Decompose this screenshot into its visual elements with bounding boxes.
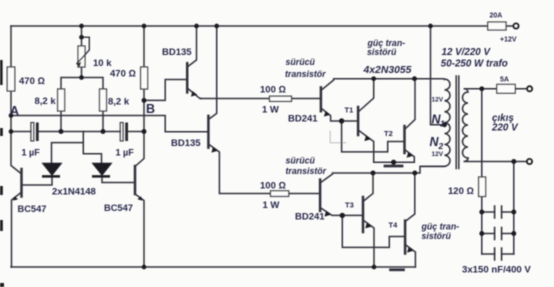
svg-text:20A: 20A (490, 13, 503, 20)
svg-text:sistörü: sistörü (367, 47, 397, 57)
svg-text:A: A (10, 104, 19, 118)
svg-text:transistör: transistör (286, 166, 327, 176)
svg-text:1: 1 (440, 119, 445, 129)
svg-text:sistörü: sistörü (422, 231, 452, 241)
svg-text:1 W: 1 W (263, 200, 280, 211)
svg-text:8,2 k: 8,2 k (108, 97, 130, 108)
svg-text:1 W: 1 W (262, 105, 279, 116)
svg-text:B: B (146, 102, 155, 116)
svg-text:470 Ω: 470 Ω (110, 69, 136, 80)
svg-text:5A: 5A (500, 77, 509, 84)
svg-text:12 V/220 V: 12 V/220 V (442, 47, 492, 58)
svg-text:BD241: BD241 (295, 212, 325, 223)
svg-text:sürücü: sürücü (286, 57, 316, 67)
svg-text:BD135: BD135 (162, 47, 192, 58)
svg-text:120 Ω: 120 Ω (448, 186, 474, 197)
svg-text:3x150 nF/400 V: 3x150 nF/400 V (462, 265, 531, 276)
svg-text:12V: 12V (432, 97, 444, 104)
svg-text:100 Ω: 100 Ω (260, 85, 286, 96)
svg-text:T1: T1 (345, 106, 354, 115)
svg-text:8,2 k: 8,2 k (35, 96, 57, 107)
svg-text:220 V: 220 V (491, 123, 519, 134)
svg-text:470 Ω: 470 Ω (19, 76, 45, 87)
svg-text:T2: T2 (384, 129, 393, 138)
svg-text:BD135: BD135 (171, 138, 201, 149)
svg-text:2: 2 (438, 141, 444, 151)
svg-text:BC547: BC547 (104, 203, 133, 213)
svg-text:1 µF: 1 µF (22, 148, 41, 158)
svg-text:1 µF: 1 µF (116, 148, 135, 158)
svg-text:transistör: transistör (285, 69, 326, 79)
svg-text:100 Ω: 100 Ω (260, 181, 286, 192)
svg-text:BC547: BC547 (18, 204, 47, 214)
svg-text:10 k: 10 k (93, 58, 112, 69)
svg-text:2x1N4148: 2x1N4148 (52, 187, 96, 198)
svg-text:4x2N3055: 4x2N3055 (363, 65, 412, 76)
svg-text:T3: T3 (345, 201, 354, 210)
svg-text:BD241: BD241 (288, 114, 318, 125)
svg-text:12V: 12V (432, 151, 444, 158)
svg-text:+12V: +12V (500, 37, 517, 44)
svg-text:sürücü: sürücü (286, 156, 316, 166)
svg-text:T4: T4 (389, 221, 399, 230)
svg-text:50-250 W trafo: 50-250 W trafo (441, 58, 508, 69)
svg-text:güç tran-: güç tran- (421, 222, 460, 232)
